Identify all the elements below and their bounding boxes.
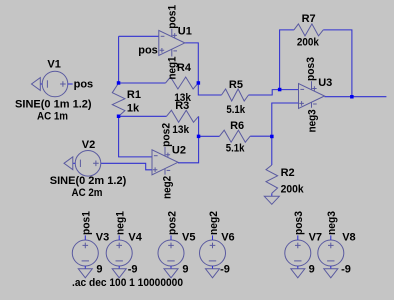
wire node neg1 to R4 xyxy=(119,82,166,84)
svg-text:U2: U2 xyxy=(172,144,186,156)
wire U3 non-inverting input xyxy=(272,103,299,136)
wire V1 ground stub xyxy=(40,83,42,85)
svg-text:U3: U3 xyxy=(318,77,332,89)
wire left feedback vertical xyxy=(118,36,120,83)
svg-text:SINE(0 2m 1.2): SINE(0 2m 1.2) xyxy=(50,175,127,187)
svg-text:pos2: pos2 xyxy=(166,211,178,235)
svg-text:pos3: pos3 xyxy=(305,57,317,81)
svg-text:-9: -9 xyxy=(220,263,230,275)
voltage source V8 xyxy=(318,240,344,266)
junction F xyxy=(278,88,282,92)
wire to U2 inverting input xyxy=(119,116,152,157)
wire R5 to U3 inverting input xyxy=(249,90,299,95)
svg-text:V7: V7 xyxy=(309,231,322,243)
wire V5 net stub xyxy=(170,235,172,240)
wire R6 to node xyxy=(250,135,272,137)
wire U1 output xyxy=(185,43,199,83)
wire V3 net stub xyxy=(84,235,86,240)
resistor R6 xyxy=(220,130,251,142)
wire U3 output xyxy=(325,96,387,98)
svg-text:R2: R2 xyxy=(281,167,295,179)
junction E xyxy=(270,135,274,139)
svg-text:5.1k: 5.1k xyxy=(226,104,245,116)
resistor R2 xyxy=(266,165,278,193)
svg-text:neg2: neg2 xyxy=(208,211,220,235)
svg-text:pos: pos xyxy=(138,44,158,56)
svg-text:pos2: pos2 xyxy=(161,123,173,147)
ground V4 xyxy=(112,269,126,278)
ground R2 xyxy=(264,196,279,204)
wire V4 net stub xyxy=(118,235,120,240)
svg-text:R6: R6 xyxy=(230,120,244,132)
svg-text:neg1: neg1 xyxy=(167,57,179,80)
wire node to R3 xyxy=(119,115,167,117)
resistor R4 xyxy=(166,77,199,89)
junction G xyxy=(350,95,354,99)
resistor R1 xyxy=(112,83,125,116)
junction A xyxy=(117,81,121,85)
wire V7 net stub xyxy=(297,235,299,240)
svg-text:U1: U1 xyxy=(178,26,192,38)
wire R7 left xyxy=(280,30,294,90)
svg-text:R7: R7 xyxy=(302,13,316,25)
svg-text:neg3: neg3 xyxy=(326,211,338,235)
wire node to R2 xyxy=(271,136,273,165)
voltage source V4 xyxy=(106,240,132,266)
wire V6 ground stub xyxy=(212,266,214,269)
svg-text:5.1k: 5.1k xyxy=(226,143,245,155)
wire U1 inverting input xyxy=(119,35,159,37)
wire V2 ground stub xyxy=(73,162,75,164)
svg-text:pos1: pos1 xyxy=(81,211,93,235)
junction C xyxy=(197,81,201,85)
svg-text:pos3: pos3 xyxy=(293,211,305,235)
junction B xyxy=(117,115,121,119)
wire V8 net stub xyxy=(330,235,332,240)
svg-text:9: 9 xyxy=(96,263,102,275)
wire V5 ground stub xyxy=(170,266,172,269)
voltage source V6 xyxy=(200,240,226,266)
op-amp U1 xyxy=(159,30,185,55)
voltage source V1 xyxy=(42,71,68,97)
svg-text:neg3: neg3 xyxy=(306,109,318,132)
wire R3 down xyxy=(198,116,200,136)
wire R2 to ground xyxy=(271,193,273,196)
wire R4/R5 link xyxy=(198,83,221,95)
junction D xyxy=(197,135,201,139)
svg-text:9: 9 xyxy=(182,263,188,275)
svg-text:V5: V5 xyxy=(182,231,195,243)
ground V7 xyxy=(291,269,305,278)
op-amp U3 xyxy=(299,84,325,109)
svg-text:V6: V6 xyxy=(221,231,234,243)
svg-text:V2: V2 xyxy=(82,139,95,151)
svg-text:-9: -9 xyxy=(128,263,138,275)
svg-text:200k: 200k xyxy=(297,36,320,48)
wire R7 right xyxy=(323,30,352,97)
svg-text:13k: 13k xyxy=(172,124,190,136)
wire V6 net stub xyxy=(212,235,214,240)
voltage source V5 xyxy=(158,240,184,266)
wire V3 ground stub xyxy=(84,266,86,269)
op-amp U2 xyxy=(152,150,178,175)
wire V7 ground stub xyxy=(297,266,299,269)
voltage source V7 xyxy=(285,240,311,266)
wire V2 to U2 non-inverting input xyxy=(101,163,152,170)
ground V3 xyxy=(78,269,92,278)
svg-text:V3: V3 xyxy=(96,231,109,243)
wire V8 ground stub xyxy=(330,266,332,269)
resistor R3 xyxy=(167,110,199,122)
svg-text:.ac dec 100 1 10000000: .ac dec 100 1 10000000 xyxy=(72,277,183,289)
svg-text:-9: -9 xyxy=(341,263,351,275)
svg-text:neg2: neg2 xyxy=(162,176,174,199)
svg-text:9: 9 xyxy=(309,263,315,275)
voltage source V2 xyxy=(75,151,101,177)
svg-text:V1: V1 xyxy=(47,58,60,70)
resistor R7 xyxy=(294,24,323,36)
ground V6 xyxy=(206,269,220,278)
svg-text:pos: pos xyxy=(74,79,94,91)
svg-text:R1: R1 xyxy=(127,89,141,101)
svg-text:V8: V8 xyxy=(342,231,355,243)
ground V8 xyxy=(324,269,338,278)
voltage source V3 xyxy=(72,240,98,266)
svg-text:R5: R5 xyxy=(229,79,243,91)
svg-text:R3: R3 xyxy=(175,100,189,112)
svg-text:pos1: pos1 xyxy=(166,5,178,29)
ground V5 xyxy=(164,269,178,278)
svg-text:200k: 200k xyxy=(281,183,305,195)
svg-text:AC 2m: AC 2m xyxy=(72,187,103,199)
wire V4 ground stub xyxy=(118,266,120,269)
wire U2 output xyxy=(178,136,199,163)
svg-text:AC 1m: AC 1m xyxy=(37,110,68,122)
resistor R5 xyxy=(222,89,249,101)
svg-text:neg1: neg1 xyxy=(115,211,127,235)
wire V1 pos stub xyxy=(68,83,73,85)
svg-text:1k: 1k xyxy=(127,102,140,114)
svg-text:R4: R4 xyxy=(177,62,192,74)
svg-text:V4: V4 xyxy=(128,231,142,243)
ground V1 xyxy=(32,78,41,91)
ground V2 xyxy=(64,157,73,170)
svg-text:SINE(0 1m 1.2): SINE(0 1m 1.2) xyxy=(15,99,92,111)
wire to R6 xyxy=(199,135,220,137)
